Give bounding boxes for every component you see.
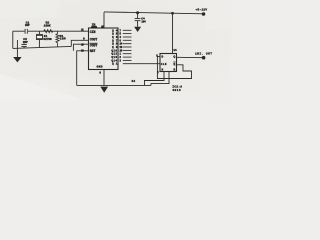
svg-text:Q1: Q1 bbox=[112, 63, 118, 66]
wire: pin 16 VDD riser bbox=[103, 12, 105, 28]
svg-text:Q: Q bbox=[173, 55, 175, 59]
svg-text:11: 11 bbox=[81, 29, 84, 32]
op IC1 4060 body bbox=[89, 28, 119, 70]
svg-text:1HZ. OUT: 1HZ. OUT bbox=[195, 53, 212, 56]
wire: oscillator top net (C1/R2 to pin 11) bbox=[13, 30, 89, 32]
svg-text:CIN: CIN bbox=[90, 30, 96, 34]
svg-text:CLK: CLK bbox=[161, 63, 167, 66]
ground (oscillator) bbox=[13, 57, 21, 62]
IC1 output pin labels Q4..Q14 bbox=[111, 29, 122, 65]
op IC2 4013 flip-flop body bbox=[160, 54, 177, 72]
IC1 right-side output stubs Q4-Q14 bbox=[123, 30, 132, 60]
wire: oscillator bottom net bbox=[13, 46, 72, 48]
paper background bbox=[0, 0, 231, 100]
svg-text:12: 12 bbox=[81, 49, 84, 52]
svg-text:4013: 4013 bbox=[172, 89, 181, 92]
crystal X1 32768 bbox=[36, 31, 43, 47]
scan shading bbox=[0, 74, 85, 100]
svg-text:10: 10 bbox=[81, 44, 84, 47]
svg-text:104: 104 bbox=[141, 20, 146, 23]
wire: ground branch of oscillator bbox=[16, 40, 18, 57]
ground (C4) bbox=[134, 27, 141, 32]
node +5-12V terminal bbox=[202, 12, 206, 16]
wire: +V top rail bbox=[104, 12, 204, 14]
resistor R1 (10M, vertical) bbox=[56, 31, 59, 47]
svg-text:32768: 32768 bbox=[43, 38, 52, 41]
svg-text:GND: GND bbox=[97, 66, 103, 69]
svg-text:RST: RST bbox=[90, 49, 96, 53]
wire: ground bus bbox=[77, 84, 151, 86]
wire: Qbar feedback loop to D bbox=[157, 56, 191, 78]
svg-text:10M: 10M bbox=[60, 38, 66, 41]
resistor R2 (150K, series in top net) bbox=[44, 30, 53, 33]
svg-text:8: 8 bbox=[99, 71, 101, 74]
wire: set pin tie-down L1 bbox=[145, 72, 165, 86]
wire: 2Hz output to IC2 clock bbox=[123, 63, 160, 65]
node junction at C4 bbox=[136, 11, 139, 14]
wire: left ground rail bbox=[12, 31, 14, 48]
svg-text:D: D bbox=[161, 55, 163, 59]
svg-text:COUT: COUT bbox=[90, 38, 98, 42]
svg-text:COUT: COUT bbox=[90, 43, 98, 47]
svg-text:Q: Q bbox=[173, 62, 175, 66]
node junction at IC2 VDD bbox=[171, 12, 174, 15]
svg-text:33P: 33P bbox=[23, 41, 28, 44]
capacitor C2 (33p, to ground net) bbox=[21, 43, 26, 48]
svg-text:16: 16 bbox=[101, 25, 104, 28]
svg-text:+5-12V: +5-12V bbox=[195, 8, 207, 11]
wire: Q output to terminal bbox=[177, 56, 204, 58]
wire: pin 9 net bbox=[71, 40, 88, 46]
svg-text:S: S bbox=[161, 68, 163, 72]
capacitor C4 (104 decoupling) bbox=[135, 13, 141, 27]
wire: pin 10 net bbox=[73, 44, 88, 51]
svg-text:22P: 22P bbox=[25, 24, 30, 27]
ground (main) bbox=[100, 87, 108, 93]
svg-text:42: 42 bbox=[131, 80, 135, 83]
wire: pin 8 GND drop bbox=[103, 70, 105, 86]
svg-text:14: 14 bbox=[173, 49, 177, 52]
svg-text:9: 9 bbox=[83, 38, 85, 41]
wire: IC2 pin14 VDD drop bbox=[172, 13, 174, 53]
wire: reset pin tie-down L2 bbox=[151, 72, 169, 86]
wire: pin 12 reset net to ground bus bbox=[77, 51, 89, 86]
svg-text:150K: 150K bbox=[44, 24, 51, 27]
node 1HZ OUT terminal bbox=[202, 56, 206, 60]
svg-text:R: R bbox=[173, 68, 175, 72]
svg-text:4060: 4060 bbox=[91, 26, 97, 29]
text labels bbox=[23, 8, 212, 91]
capacitor C1 (22p, series in top net) bbox=[25, 29, 28, 34]
